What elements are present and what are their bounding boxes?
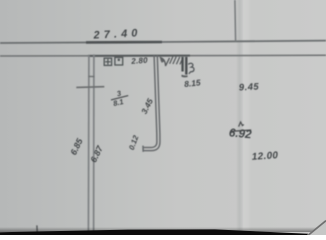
dimension tick crossing left wall xyxy=(76,86,104,89)
door leaf blob xyxy=(160,58,164,63)
door swing arc xyxy=(160,57,170,66)
svg-text:8.15: 8.15 xyxy=(184,77,202,89)
svg-text:9.45: 9.45 xyxy=(239,80,260,92)
strikethrough over 6.92 xyxy=(231,130,252,131)
bottom black scan edge xyxy=(0,229,308,235)
wall: inner top wall line xyxy=(0,54,326,57)
tick across left wall xyxy=(88,75,94,77)
svg-text:12.00: 12.00 xyxy=(251,150,278,163)
wall: middle partition with J-hook end (inner line) xyxy=(144,56,160,151)
outer top wall thicker middle segment xyxy=(86,41,162,44)
bottom-right paper corner xyxy=(307,220,326,236)
svg-text:6.92: 6.92 xyxy=(228,126,252,141)
door post bar 2 xyxy=(185,57,187,75)
door post bar 1 xyxy=(181,57,183,72)
vertical fold crease xyxy=(236,0,253,235)
base blob under door posts xyxy=(181,75,187,78)
inner top wall darker segment over room xyxy=(88,55,190,57)
vent box 2 xyxy=(115,57,123,65)
wall: left interior wall (double line) xyxy=(87,55,90,231)
end cap tick of J-hook xyxy=(142,146,144,152)
wall: middle partition with J-hook end (outer line) xyxy=(144,56,157,148)
hatched window sill xyxy=(170,57,173,64)
caret mark above 6.92 xyxy=(239,122,244,127)
svg-text:2.80: 2.80 xyxy=(130,56,148,66)
wall: outer top wall line (27.40 side) xyxy=(0,41,326,43)
handwritten correction mark xyxy=(188,63,194,74)
corner crease line xyxy=(308,221,326,236)
bottom scan shadow xyxy=(0,227,326,232)
wall: vertical boundary above top wall xyxy=(234,0,237,42)
vent box 1 xyxy=(104,58,111,65)
tick at bottom left xyxy=(36,225,38,232)
svg-text:27.40: 27.40 xyxy=(92,27,142,42)
